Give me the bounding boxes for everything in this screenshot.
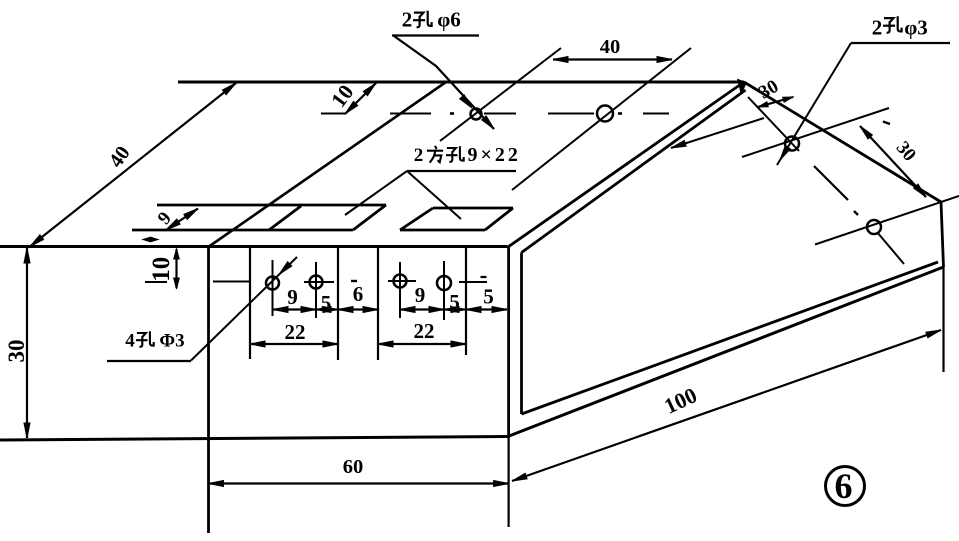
dim 9 b (400, 308, 444, 310)
wire: extension line x338 (337, 247, 339, 361)
node: figure number badge (826, 467, 865, 506)
node: back-right corner wedge (737, 79, 747, 96)
wire: hole A-B axis dash (814, 166, 848, 200)
wire: hole2 vertical centerline (315, 262, 317, 318)
dim 40 left slant (30, 83, 236, 247)
svg-text:22: 22 (414, 319, 435, 343)
wire: panel right edge (941, 202, 944, 267)
wire: front face top edge + 30/40 extension (0, 245, 508, 248)
svg-text:5: 5 (321, 291, 332, 315)
dim 30 panel lower (860, 126, 926, 197)
svg-text:2: 2 (872, 16, 883, 40)
dim 10 top (345, 83, 376, 114)
node: phi3 hole A (785, 137, 799, 151)
node: phi6 hole 1 (471, 109, 482, 120)
dim 100 (512, 330, 941, 481)
dim 40 top (553, 58, 672, 60)
wire: left square hole left edge (269, 206, 301, 230)
node: phi6 holes centerline (dash-dot) (321, 113, 346, 115)
wire: centerline through phi3 hole A (742, 108, 889, 157)
wire: front-right vertical edge (507, 247, 510, 436)
node: phi3 hole B (867, 220, 881, 234)
node: phi6 hole 2 (597, 106, 613, 122)
wire: panel outer bottom edge (509, 267, 944, 436)
wire: underline 4 holes label (107, 360, 191, 362)
wire: leaders 2 square holes (407, 171, 461, 219)
dim 22 b (378, 343, 466, 345)
svg-text:φ6: φ6 (437, 8, 461, 32)
svg-text:30: 30 (4, 340, 29, 363)
svg-text:5: 5 (483, 285, 494, 309)
wire: sq-hole bottom line + 9 extension (132, 229, 353, 232)
wire: extension line x466 (465, 247, 467, 356)
wire: hole3 vertical centerline (399, 262, 401, 318)
svg-text:2: 2 (402, 8, 413, 32)
dim 5 c (466, 308, 507, 310)
wire: front-left vertical edge + 60 extension (207, 247, 210, 534)
dim 30 panel upper (758, 97, 793, 107)
wire: underline phi3 label (851, 42, 950, 44)
dim 10 front (175, 249, 177, 288)
wire: 40-extension slant through phi6 hole 1 (440, 48, 561, 141)
wire: fold inner edge (522, 90, 746, 253)
node: front hole 1 (266, 277, 279, 290)
wire: leader 2 holes phi3 (777, 43, 851, 165)
wire: panel back-top edge (744, 82, 941, 202)
wire: fold outer edge (top face right edge) (508, 82, 744, 247)
dim 60 (209, 482, 509, 484)
wire: left square hole right edge (353, 205, 386, 230)
svg-text:4: 4 (125, 331, 135, 352)
wire: short line with arrow touching fold (671, 118, 764, 148)
node: front hole row centerline (145, 281, 167, 283)
wire: axis dot near lineU end (883, 122, 890, 125)
wire: top face left edge (209, 82, 446, 247)
node: thickness tick mark (144, 239, 157, 241)
dim 6 (338, 308, 378, 310)
wire: hole B axis lower segment (877, 232, 904, 264)
node: front hole 2 (310, 276, 323, 289)
wire: panel inner vertical edge (520, 253, 523, 415)
wire: underline phi6 label (392, 34, 479, 36)
dim 5 b (444, 308, 466, 310)
wire: right square hole left edge (400, 208, 433, 230)
svg-text:40: 40 (600, 36, 621, 58)
wire: underline square holes label (407, 170, 516, 172)
wire: sq-hole top line + 9 extension (157, 204, 386, 207)
dim 30 left vertical (26, 248, 28, 438)
wire: leader 4 holes Phi3 (191, 257, 297, 361)
svg-text:5: 5 (449, 290, 460, 314)
wire: extension line for 60/100 right (508, 436, 510, 527)
wire: extension line x250 (249, 247, 251, 360)
svg-text:9: 9 (287, 285, 298, 309)
wire: hole A axis upper segment (748, 97, 799, 151)
node: front hole 3 (394, 275, 407, 288)
wire: extension line at panel right corner (942, 267, 944, 372)
svg-text:φ3: φ3 (904, 16, 928, 40)
svg-text:22: 22 (285, 320, 306, 344)
svg-text:2: 2 (414, 145, 424, 166)
wire: leader 2 holes phi6 (394, 36, 494, 129)
dim 9 a (273, 308, 316, 310)
wire: panel inner bottom edge (522, 262, 939, 414)
svg-text:6: 6 (835, 466, 853, 506)
wire: 40-extension slant through phi6 hole 2 (512, 48, 691, 190)
dim 9 square hole (166, 209, 198, 231)
wire: right square hole right edge (485, 208, 513, 230)
wire: centerline through phi3 hole B (815, 196, 959, 245)
wire: top face back edge + 40 extension (178, 81, 744, 84)
wire: right square hole front edge (400, 229, 485, 232)
dim 22 a (250, 343, 338, 345)
wire: hole1 vertical centerline (272, 260, 274, 316)
svg-text:6: 6 (353, 282, 364, 306)
dim 5 a (316, 308, 338, 310)
svg-text:9×22: 9×22 (468, 144, 521, 166)
wire: right square hole back edge (433, 207, 513, 210)
svg-text:9: 9 (415, 283, 426, 307)
svg-text:Φ3: Φ3 (159, 331, 184, 352)
node: front hole 4 (437, 276, 451, 290)
wire: extension line x378 (377, 247, 379, 361)
svg-text:10: 10 (148, 257, 175, 282)
svg-text:60: 60 (343, 456, 364, 478)
wire: axis dot (854, 211, 858, 215)
wire: front face bottom edge + 30 extension (0, 437, 510, 441)
wire: hole4 vertical centerline (443, 261, 445, 320)
